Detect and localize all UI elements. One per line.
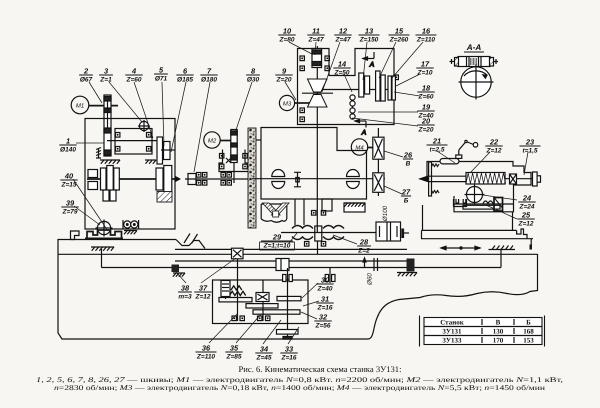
section arrow A bottom xyxy=(355,119,367,136)
label 37 (Z=12) xyxy=(194,284,211,301)
label 29 (Z=1;t=10) xyxy=(260,233,295,251)
svg-text:3У133: 3У133 xyxy=(442,337,462,345)
svg-text:Ø180: Ø180 xyxy=(201,77,217,84)
svg-text:Z=110: Z=110 xyxy=(196,354,216,361)
svg-text:16: 16 xyxy=(422,27,431,36)
lever boss capsule xyxy=(440,159,459,164)
gear bar 34 xyxy=(253,310,300,314)
svg-text:A: A xyxy=(369,62,375,69)
M2 bracket xyxy=(219,150,249,172)
wheel bracket xyxy=(295,199,304,225)
handwheel xyxy=(277,330,299,340)
label 25 (Z=12) xyxy=(517,211,534,228)
svg-text:31: 31 xyxy=(321,295,329,304)
svg-text:Z=79: Z=79 xyxy=(62,209,78,216)
svg-text:10: 10 xyxy=(283,27,292,36)
label 26 (В) xyxy=(403,151,413,168)
label 7 (Ø180) xyxy=(200,67,217,84)
gear cluster mid xyxy=(101,166,120,193)
svg-text:39: 39 xyxy=(66,199,75,208)
carriage riser xyxy=(101,249,103,268)
worm wheel 39 xyxy=(96,220,113,237)
label 2 (Ø67) xyxy=(79,67,93,84)
label 40 (Z=15) xyxy=(60,172,77,189)
svg-text:14: 14 xyxy=(338,60,346,69)
svg-text:Б: Б xyxy=(526,319,531,327)
machine bed outline xyxy=(58,231,538,339)
top pulley 10 xyxy=(312,49,322,68)
svg-text:34: 34 xyxy=(260,345,268,354)
svg-text:38: 38 xyxy=(181,284,190,293)
A-A title xyxy=(464,43,484,52)
label 5 (Ø71) xyxy=(154,66,168,83)
cross feed housing xyxy=(427,162,531,212)
svg-text:n=2830 об/мин; М3 — электродв: n=2830 об/мин; М3 — электродвигатель N=0… xyxy=(54,384,545,392)
svg-text:2: 2 xyxy=(83,67,89,76)
svg-text:m=3: m=3 xyxy=(178,294,192,301)
scallop wave xyxy=(483,201,493,204)
hatched wall column xyxy=(248,128,256,228)
svg-text:Z=40: Z=40 xyxy=(317,286,333,293)
brake gear column 5/6 xyxy=(157,137,175,164)
svg-text:Ø30: Ø30 xyxy=(247,77,260,84)
svg-text:130: 130 xyxy=(493,328,504,336)
svg-text:33: 33 xyxy=(285,345,294,354)
disc gear 15 xyxy=(376,71,386,101)
svg-text:М4: М4 xyxy=(355,144,364,151)
svg-text:Z=80: Z=80 xyxy=(279,37,295,44)
right gear pair xyxy=(156,166,172,193)
label 4 (Z=60) xyxy=(125,67,142,84)
ratchet pawls xyxy=(230,286,246,296)
slide left end xyxy=(421,230,423,238)
label 17 (Z=10) xyxy=(416,60,433,77)
svg-text:32: 32 xyxy=(319,313,328,322)
label 15 (Z=260) xyxy=(389,27,410,44)
svg-text:М2: М2 xyxy=(208,137,217,144)
worm shaft xyxy=(281,232,380,234)
svg-text:22: 22 xyxy=(489,138,499,147)
svg-text:Ø71: Ø71 xyxy=(155,76,168,83)
svg-text:168: 168 xyxy=(523,328,534,336)
gears below shaft xyxy=(103,190,116,201)
label 12 (Z=47) xyxy=(334,27,351,44)
dresser drum Ø100 xyxy=(376,222,401,241)
svg-text:30: 30 xyxy=(321,276,330,285)
svg-text:3У131: 3У131 xyxy=(442,328,462,336)
label 19 (Z=40) xyxy=(417,103,434,120)
housing inner bottom line xyxy=(454,203,514,205)
svg-text:Z=85: Z=85 xyxy=(226,354,242,361)
svg-text:Ø140: Ø140 xyxy=(60,147,76,154)
label 24 (Z=24) xyxy=(518,194,535,211)
scallop left square xyxy=(454,199,467,207)
vertical spindle shaft xyxy=(316,46,318,232)
rocker plate xyxy=(115,129,152,155)
hatched block xyxy=(157,192,172,203)
svg-text:Z=56: Z=56 xyxy=(315,323,331,330)
worm centre box xyxy=(315,226,322,241)
rack top line xyxy=(175,248,407,250)
svg-text:М1: М1 xyxy=(76,102,84,109)
svg-text:24: 24 xyxy=(522,194,531,203)
svg-text:37: 37 xyxy=(199,284,208,293)
svg-text:Z=15: Z=15 xyxy=(61,182,77,189)
gear shift box lower xyxy=(373,173,384,193)
svg-text:Z=1;t=10: Z=1;t=10 xyxy=(263,243,291,250)
pulley D pair right xyxy=(347,170,360,189)
plunger cylinder xyxy=(221,281,230,300)
svg-text:29: 29 xyxy=(272,233,282,242)
svg-text:Станок: Станок xyxy=(440,319,465,327)
label 28 (Z=2) xyxy=(357,238,371,255)
pawl bracket dark xyxy=(494,198,503,212)
clutch box xyxy=(256,293,269,302)
svg-text:Z=45: Z=45 xyxy=(256,355,272,362)
label 16 (Z=110) xyxy=(416,27,437,44)
svg-text:170: 170 xyxy=(493,337,504,345)
left shaft bearings xyxy=(88,170,98,190)
dim Ø60 xyxy=(363,258,366,268)
section arrow A top xyxy=(363,52,375,69)
svg-text:Z=110: Z=110 xyxy=(416,37,436,44)
svg-text:Z=20: Z=20 xyxy=(276,77,292,84)
handwheel right xyxy=(533,172,541,186)
piston block left xyxy=(172,265,180,273)
travel arrow xyxy=(441,246,480,250)
label 32 (Z=56) xyxy=(314,313,331,330)
piston rod bottom line xyxy=(102,267,502,269)
saddle dovetail step xyxy=(176,240,205,249)
motor M1 xyxy=(71,96,89,114)
belt to spindle xyxy=(233,163,235,184)
screw coupling xyxy=(510,174,517,184)
svg-text:Z=50: Z=50 xyxy=(334,70,350,77)
wheel guard block xyxy=(322,199,332,211)
internal spindle shaft xyxy=(185,178,248,180)
svg-text:В: В xyxy=(496,319,501,327)
svg-text:A: A xyxy=(361,130,367,137)
label 38 (m=3) xyxy=(178,284,192,301)
ground hatch in box xyxy=(100,160,120,164)
svg-text:Z=12: Z=12 xyxy=(195,294,211,301)
worm gears 29 xyxy=(292,226,313,240)
grinding wheel V xyxy=(263,203,290,217)
svg-text:Рис. 6. Кинематическая схема с: Рис. 6. Кинематическая схема станка 3У13… xyxy=(239,364,402,374)
wheel housing box xyxy=(261,204,287,222)
rack pinion box 37 xyxy=(232,248,244,259)
svg-text:В: В xyxy=(406,161,411,168)
label 20 (Z=20) xyxy=(417,117,434,134)
spindle centre line xyxy=(252,178,385,180)
svg-text:12: 12 xyxy=(339,27,348,36)
label 31 (Z=16) xyxy=(316,295,333,312)
M1 shaft xyxy=(89,105,118,107)
shaft continues down xyxy=(317,241,319,254)
slide bottom line xyxy=(421,238,533,240)
svg-text:Z=47: Z=47 xyxy=(335,37,351,44)
rod end block xyxy=(407,259,415,272)
M3 shaft xyxy=(295,102,311,104)
svg-text:23: 23 xyxy=(525,138,535,147)
cluster housing xyxy=(298,49,395,125)
ground hatch under table xyxy=(91,247,114,251)
piston rod top line xyxy=(175,260,407,262)
coupling pair a xyxy=(283,275,293,282)
svg-text:Z=1: Z=1 xyxy=(99,77,112,84)
svg-text:Б: Б xyxy=(404,198,409,205)
label 14 (Z=50) xyxy=(333,60,350,77)
slide top line xyxy=(422,229,517,231)
worm gears 28 xyxy=(323,226,344,240)
label 9 (Z=20) xyxy=(275,67,292,84)
M2 shaft xyxy=(220,140,232,142)
spindle with point xyxy=(418,176,533,183)
pawl bar xyxy=(463,205,500,209)
pulley pair xyxy=(123,220,139,229)
saddle risers xyxy=(422,205,424,230)
label 8 (Ø30) xyxy=(246,67,260,84)
bearing I symbol xyxy=(294,172,301,187)
bevel gear pair 11/12 xyxy=(302,79,333,107)
svg-text:17: 17 xyxy=(421,60,430,69)
M4 shaft xyxy=(368,147,374,149)
spring stop xyxy=(96,148,101,159)
wheelhead housing xyxy=(261,128,367,200)
svg-text:27: 27 xyxy=(401,188,411,197)
svg-text:36: 36 xyxy=(202,344,211,353)
svg-text:Z=260: Z=260 xyxy=(389,37,409,44)
belt pulley column (1 / 2) xyxy=(104,95,111,156)
spindle end square xyxy=(188,174,196,185)
pulley D pair left xyxy=(272,170,285,189)
plate bearings xyxy=(116,133,120,138)
svg-text:Z=12: Z=12 xyxy=(518,221,534,228)
gear bar 33 xyxy=(277,296,301,300)
svg-text:18: 18 xyxy=(422,84,431,93)
label 21 (t=2,5) xyxy=(427,137,448,154)
feed gearbox housing xyxy=(213,280,309,324)
label 6 (Ø185) xyxy=(176,67,193,84)
svg-text:15: 15 xyxy=(395,27,404,36)
svg-text:Z=24: Z=24 xyxy=(519,204,535,211)
svg-text:13: 13 xyxy=(365,27,374,36)
svg-text:11: 11 xyxy=(312,27,320,36)
label 13 (Z=150) xyxy=(359,27,380,44)
bracket x-mark xyxy=(226,158,231,163)
gearbox housing xyxy=(85,119,175,230)
svg-text:153: 153 xyxy=(523,337,534,345)
slide right step xyxy=(517,229,527,239)
spindle shaft xyxy=(107,140,161,142)
M2 pulley 8 xyxy=(231,130,237,163)
balance block xyxy=(344,203,365,212)
svg-text:25: 25 xyxy=(521,211,531,220)
svg-text:28: 28 xyxy=(359,238,369,247)
svg-text:21: 21 xyxy=(432,137,441,146)
label 33 (Z=16) xyxy=(280,345,297,362)
svg-text:Ø185: Ø185 xyxy=(177,77,193,84)
feed screw spring xyxy=(466,173,506,185)
hand lever xyxy=(456,140,478,158)
slide right vertical xyxy=(530,239,532,250)
spec table xyxy=(420,316,545,347)
ratchet circle 24 xyxy=(465,185,485,205)
svg-text:20: 20 xyxy=(421,117,431,126)
flange springs xyxy=(432,164,440,193)
svg-text:t=2,5: t=2,5 xyxy=(430,147,445,154)
dumbbell shifters xyxy=(350,95,355,119)
label 23 (t=1,5) xyxy=(520,138,541,155)
svg-text:19: 19 xyxy=(422,103,431,112)
rod middle block xyxy=(276,259,289,271)
svg-text:1, 2, 5, 6, 7, 8, 26, 27 — шки: 1, 2, 5, 6, 7, 8, 26, 27 — шкивы; М1 — э… xyxy=(36,376,563,384)
svg-text:Z=60: Z=60 xyxy=(418,94,434,101)
svg-text:Z=10: Z=10 xyxy=(417,70,433,77)
cluster horizontal shaft xyxy=(322,89,392,91)
drum end tick xyxy=(401,229,404,239)
label 1 (Ø140) xyxy=(59,137,76,154)
svg-text:35: 35 xyxy=(230,344,239,353)
label 22 (Z=12) xyxy=(485,138,502,155)
label 34 (Z=45) xyxy=(255,345,272,362)
label 3 (Z=1) xyxy=(99,67,113,84)
coupling pair b xyxy=(325,268,335,283)
wall to housing links xyxy=(256,139,261,141)
vertical shafts xyxy=(237,282,239,321)
idler circle xyxy=(138,120,150,132)
leader lines xyxy=(73,42,528,344)
carriage line upper xyxy=(58,253,538,255)
motor M3 xyxy=(279,95,294,110)
label 27 (Б) xyxy=(401,188,411,205)
main lower shaft xyxy=(87,176,181,182)
motor M2 xyxy=(204,132,220,148)
svg-text:Ø60: Ø60 xyxy=(367,273,374,286)
label 30 (Z=40) xyxy=(316,276,333,293)
svg-text:Z=16: Z=16 xyxy=(317,305,333,312)
gear bar 36 xyxy=(219,298,252,302)
svg-text:Z=2: Z=2 xyxy=(357,248,370,255)
spindle flange xyxy=(429,162,432,196)
gear shift boxes B xyxy=(377,128,379,196)
label 11 (Z=47) xyxy=(307,27,324,44)
svg-text:М3: М3 xyxy=(283,100,292,107)
vertical shaft to feed box xyxy=(237,259,239,283)
svg-text:Z=60: Z=60 xyxy=(126,77,142,84)
svg-text:А-А: А-А xyxy=(466,43,482,52)
disc gear 16 xyxy=(388,76,395,100)
label 18 (Z=60) xyxy=(417,84,434,101)
dovetail gib marks xyxy=(184,234,198,244)
table support riser xyxy=(489,246,516,268)
svg-text:Z=20: Z=20 xyxy=(418,127,434,134)
label 35 (Z=85) xyxy=(225,344,242,361)
table serration xyxy=(87,230,122,238)
label 39 (Z=79) xyxy=(61,199,78,216)
section cylinder xyxy=(450,57,499,67)
label 36 (Z=110) xyxy=(196,344,217,361)
svg-text:Ø67: Ø67 xyxy=(80,77,93,84)
section circle xyxy=(459,65,494,100)
disc gear 13 xyxy=(359,73,370,97)
svg-text:1: 1 xyxy=(66,137,70,146)
svg-text:4: 4 xyxy=(131,67,136,76)
svg-text:40: 40 xyxy=(64,172,74,181)
label 10 (Z=80) xyxy=(278,27,295,44)
gear bar 35 xyxy=(246,304,278,308)
svg-text:Ø100: Ø100 xyxy=(382,205,389,222)
svg-text:26: 26 xyxy=(403,151,413,160)
motor M4 xyxy=(351,139,367,155)
svg-text:Z=12: Z=12 xyxy=(486,148,502,155)
svg-text:t=1,5: t=1,5 xyxy=(523,148,538,155)
svg-text:Z=150: Z=150 xyxy=(359,37,379,44)
rod bearing tick xyxy=(373,258,375,271)
bed table top line xyxy=(71,239,177,241)
svg-text:Z=16: Z=16 xyxy=(281,355,297,362)
